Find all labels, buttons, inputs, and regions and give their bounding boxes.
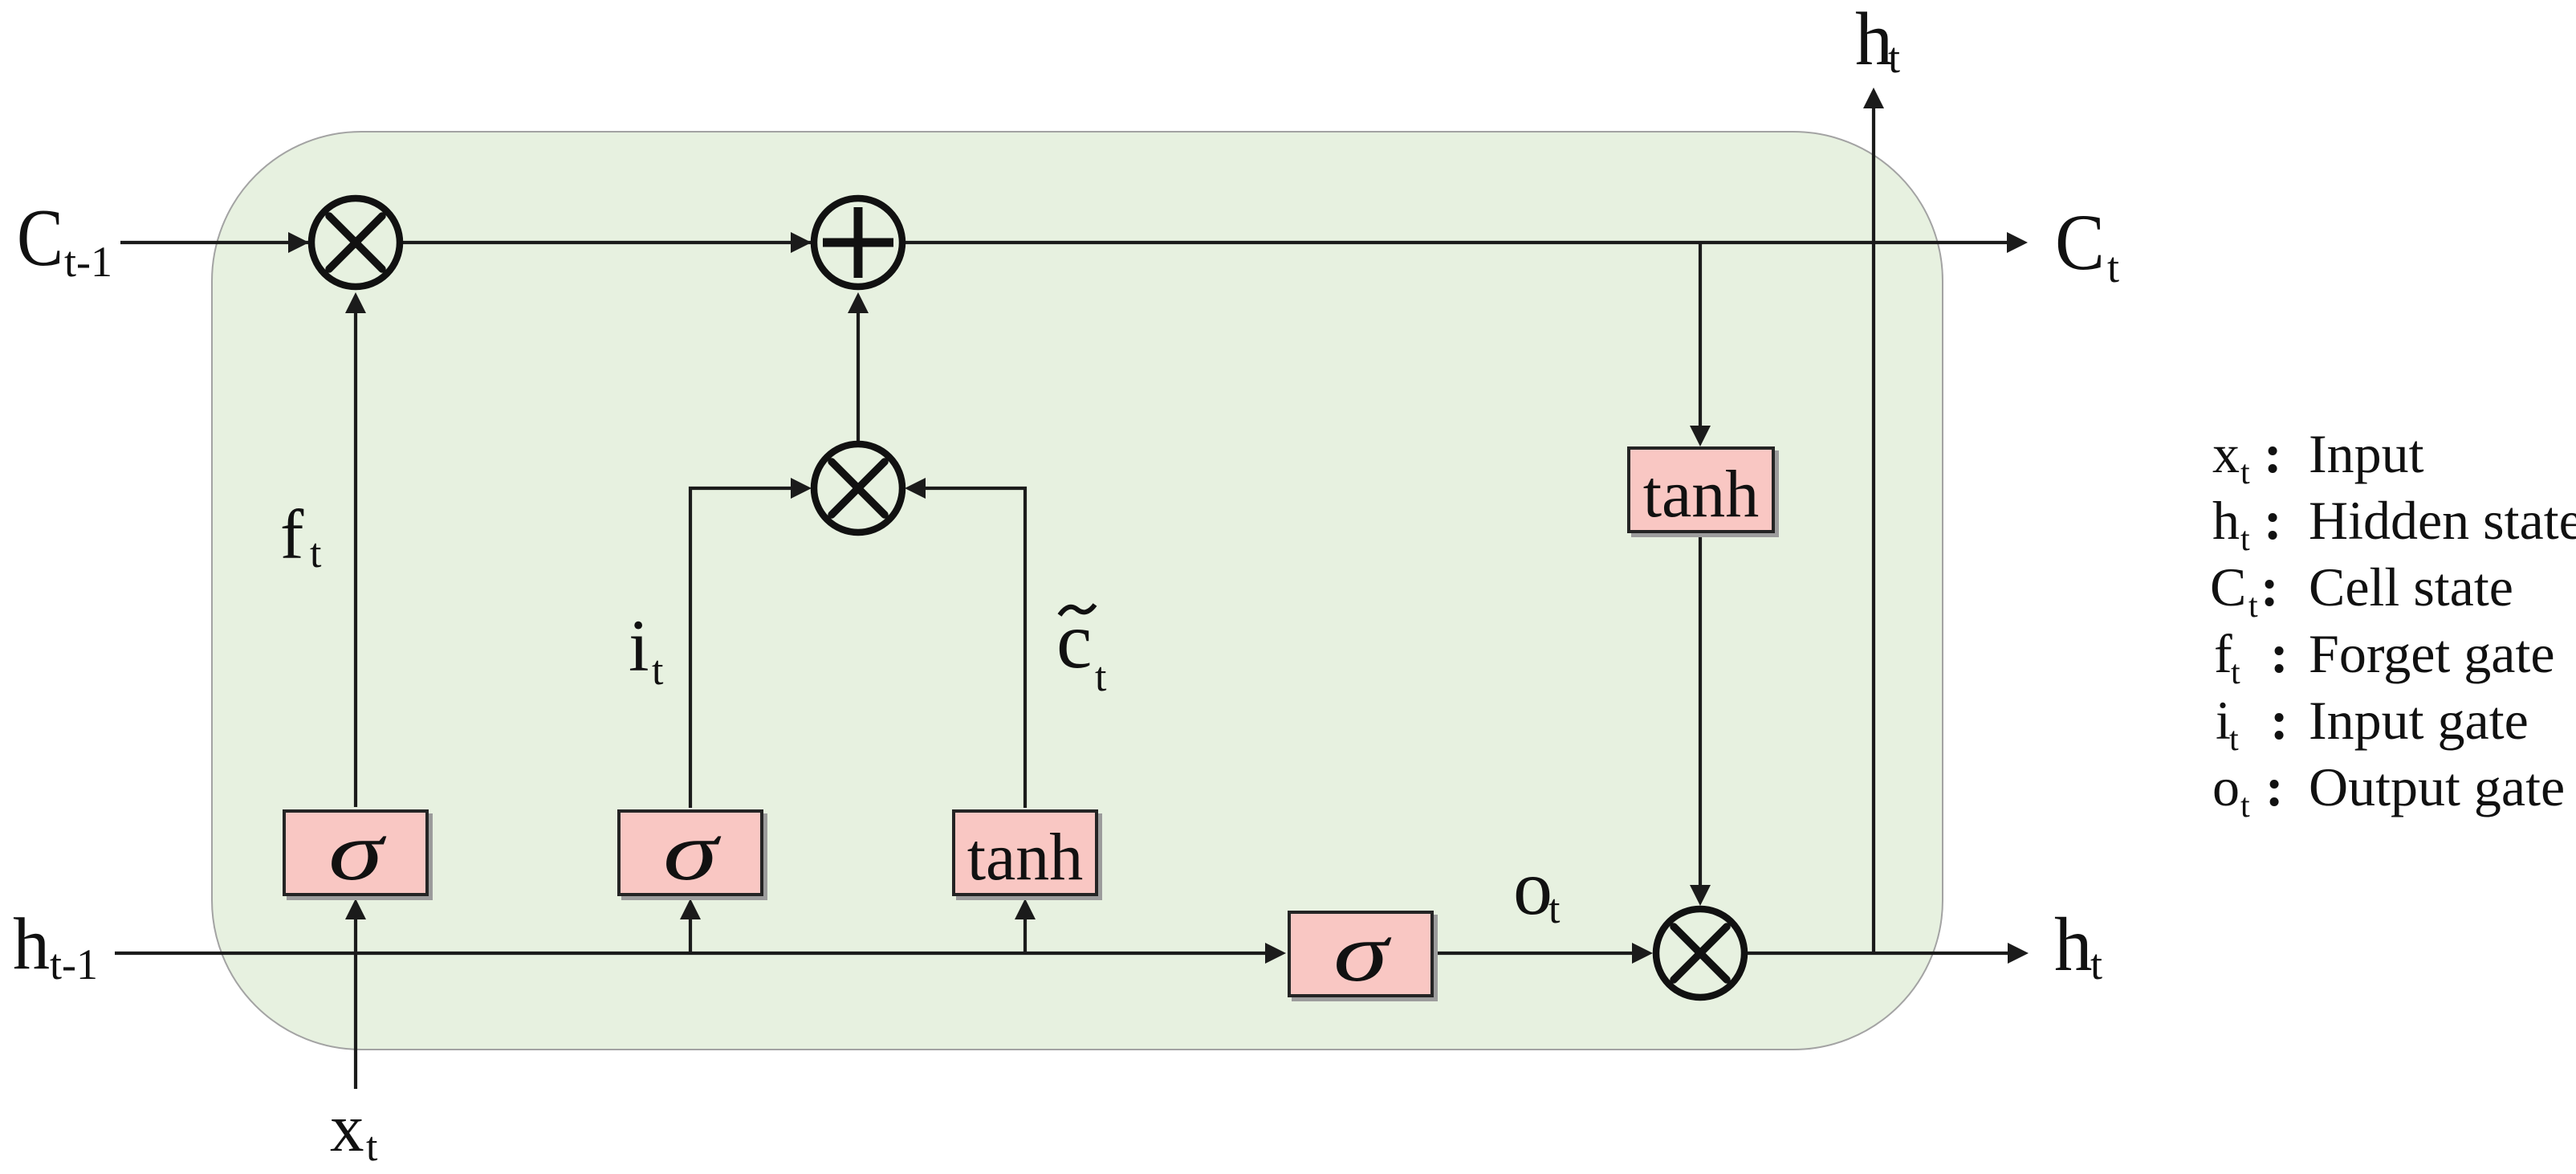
svg-text:σ: σ [1333, 907, 1392, 999]
svg-text:t: t [2240, 455, 2250, 491]
svg-text:t-1: t-1 [50, 940, 98, 989]
svg-text:o: o [2212, 756, 2240, 817]
svg-text:t: t [652, 648, 664, 694]
svg-text::: : [2261, 556, 2279, 618]
svg-text:t: t [2090, 940, 2102, 989]
svg-text::: : [2264, 423, 2282, 484]
svg-text::: : [2264, 490, 2282, 551]
svg-text:t: t [366, 1124, 378, 1170]
svg-text:Output gate: Output gate [2309, 756, 2565, 817]
svg-text:i: i [629, 605, 649, 687]
svg-text:C: C [2210, 556, 2246, 618]
svg-text:f: f [280, 496, 304, 574]
svg-text:t: t [2240, 788, 2250, 825]
svg-text:Input: Input [2309, 423, 2424, 484]
svg-text:tanh: tanh [967, 820, 1084, 895]
svg-text:t: t [2248, 588, 2258, 625]
svg-text:x: x [2212, 423, 2240, 484]
svg-text:h: h [2212, 490, 2240, 551]
svg-text:x: x [330, 1090, 364, 1166]
svg-text:Forget gate: Forget gate [2309, 623, 2555, 684]
svg-text:h: h [13, 903, 50, 984]
svg-text:tanh: tanh [1643, 457, 1760, 532]
svg-text:C: C [17, 193, 63, 283]
svg-text:f: f [2214, 623, 2232, 684]
svg-text:Cell state: Cell state [2309, 556, 2513, 618]
svg-text::: : [2265, 756, 2284, 817]
svg-text:Hidden state: Hidden state [2309, 490, 2576, 551]
svg-text:h: h [1855, 0, 1893, 81]
svg-text:t-1: t-1 [64, 238, 112, 286]
svg-text:σ: σ [328, 805, 387, 898]
svg-text:t: t [1888, 34, 1900, 82]
svg-text:h: h [2054, 902, 2093, 987]
svg-text:σ: σ [663, 805, 722, 898]
svg-text:Input gate: Input gate [2309, 690, 2529, 751]
svg-text:t: t [1548, 887, 1561, 932]
svg-text:t: t [310, 531, 322, 577]
svg-text:C: C [2055, 198, 2105, 287]
svg-text:t: t [2107, 243, 2119, 291]
svg-text:t: t [2231, 654, 2240, 691]
svg-text:t: t [1095, 654, 1107, 700]
svg-text::: : [2270, 690, 2289, 751]
svg-text::: : [2270, 623, 2289, 684]
svg-text:t: t [2240, 521, 2250, 558]
svg-text:o: o [1513, 845, 1553, 931]
svg-text:t: t [2229, 721, 2239, 758]
